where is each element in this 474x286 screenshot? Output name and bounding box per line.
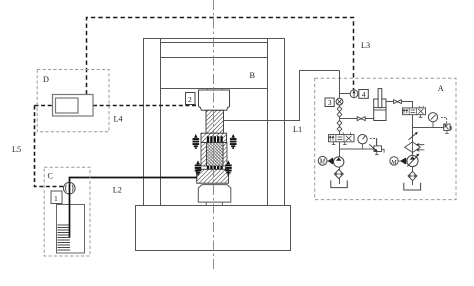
svg-text:B: B bbox=[250, 71, 256, 80]
svg-text:L4: L4 bbox=[114, 114, 123, 123]
specimen cell left wall bbox=[201, 143, 207, 166]
svg-text:L2: L2 bbox=[113, 186, 122, 195]
svg-text:3: 3 bbox=[328, 98, 332, 107]
wire L5 dashed (controller to C unit) bbox=[35, 106, 64, 187]
bolt upper-left bbox=[193, 134, 200, 149]
pipe accumulator to valve bbox=[386, 102, 413, 109]
right supply axis bbox=[412, 108, 414, 185]
check coupling 1 bbox=[337, 106, 342, 111]
centerline (vertical dash-dot machine axis) bbox=[213, 0, 215, 270]
svg-text:1: 1 bbox=[54, 194, 58, 203]
shutoff valve to accumulator bbox=[357, 117, 365, 121]
variable pump right bbox=[407, 155, 418, 166]
wire L2 (thick, cell to conditioner C) bbox=[70, 178, 198, 183]
box D (controller enclosure, dashed) bbox=[37, 70, 109, 132]
svg-text:M: M bbox=[318, 158, 325, 165]
svg-text:M: M bbox=[390, 159, 397, 166]
pressure gauge left bbox=[362, 144, 364, 149]
directional valve U2 (right) bbox=[403, 106, 426, 117]
svg-text:L5: L5 bbox=[12, 145, 21, 154]
pump left bbox=[334, 157, 344, 167]
relief valve right bbox=[441, 117, 452, 133]
relief valve left bbox=[369, 138, 384, 155]
support block feet ticks bbox=[205, 202, 207, 205]
manifold left bbox=[340, 148, 374, 150]
svg-text:C: C bbox=[48, 171, 54, 180]
bolt lower-right bbox=[225, 160, 232, 175]
box C (conditioner, dashed) bbox=[44, 167, 90, 256]
flow transducer circle in C bbox=[64, 182, 76, 194]
left column bbox=[143, 38, 145, 206]
lower support block bbox=[198, 185, 231, 203]
wire L4 dashed (controller D to actuator) bbox=[35, 105, 198, 107]
wire L1 (rod to hydraulic unit) bbox=[224, 71, 340, 121]
load frame B: top plate bbox=[143, 38, 285, 40]
specimen (cross-hatched) bbox=[207, 143, 224, 166]
lower platen (hatched) bbox=[197, 169, 229, 183]
piston lines bbox=[374, 107, 386, 109]
check coupling 2 bbox=[337, 112, 342, 117]
crossbeam lines bbox=[161, 42, 268, 44]
tank right bbox=[404, 183, 421, 190]
box 3 bbox=[325, 98, 334, 107]
throttle valve right bbox=[409, 133, 417, 140]
svg-text:L3: L3 bbox=[361, 41, 370, 50]
box 4 bbox=[359, 90, 369, 99]
component 4 link bbox=[340, 93, 351, 95]
check coupling 4 bbox=[337, 126, 342, 131]
machine base bbox=[136, 206, 291, 251]
svg-text:A: A bbox=[438, 84, 444, 93]
upper grip block bbox=[199, 90, 230, 110]
piston rod (hatched) bbox=[206, 110, 224, 133]
bolt upper-right bbox=[230, 134, 237, 149]
specimen cell right wall bbox=[223, 143, 227, 166]
svg-text:4: 4 bbox=[362, 90, 366, 99]
component 4 (servo feed circle) bbox=[350, 90, 358, 98]
box A (hydraulic power unit, dashed) bbox=[315, 78, 456, 199]
cooler right bbox=[405, 142, 421, 153]
component 3 (valve circle with X) bbox=[336, 98, 343, 105]
box 1 bbox=[51, 191, 62, 204]
tank of C bbox=[57, 205, 85, 254]
upper serrated platen bars bbox=[206, 136, 222, 142]
shutoff valve 2 bbox=[394, 100, 402, 104]
bolt lower-left bbox=[195, 160, 202, 175]
check coupling 3 bbox=[337, 120, 342, 125]
specimen upper flange (hatched) bbox=[201, 133, 227, 142]
accumulator piston rod bbox=[378, 89, 382, 108]
motor left bbox=[318, 156, 327, 165]
upper grip mounting tabs bbox=[206, 88, 208, 90]
accumulator cylinder body bbox=[374, 99, 386, 121]
svg-text:2: 2 bbox=[188, 95, 192, 104]
supply axis line (left branch) bbox=[339, 71, 341, 185]
left group: directional valve U1 bbox=[329, 132, 355, 144]
filter right bbox=[408, 171, 417, 180]
lower serrated platen bars bbox=[206, 166, 222, 169]
controller outer box bbox=[53, 95, 94, 117]
right column bbox=[267, 38, 269, 206]
svg-text:D: D bbox=[43, 75, 49, 84]
heater coil stripes bbox=[57, 225, 70, 250]
wire L3 dashed signal path (D controller up, across top, down to component 4) bbox=[87, 18, 354, 95]
manifold line to relief valve bbox=[413, 127, 444, 129]
controller screen bbox=[56, 98, 79, 113]
branch to accumulator bbox=[340, 118, 374, 120]
filter left bbox=[334, 169, 343, 178]
box 2 (sensor) bbox=[186, 93, 196, 105]
svg-text:L1: L1 bbox=[293, 125, 302, 134]
pressure gauge right bbox=[432, 122, 434, 128]
probe line into tank bbox=[69, 183, 71, 238]
tank left bbox=[331, 180, 348, 187]
motor right bbox=[390, 157, 398, 165]
